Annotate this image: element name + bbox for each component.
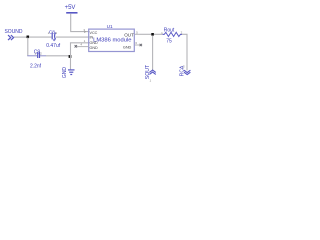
svg-text:U1: U1 [107,24,113,29]
node out junction [151,33,154,36]
wire OUT to junction [140,33,152,35]
wire junction to C8 [29,36,52,38]
svg-text:GND: GND [123,46,132,50]
svg-text:SOUT: SOUT [145,64,151,79]
wire C9 to ground junction [46,55,70,57]
connector SOUND [4,29,22,40]
svg-text:0.47uf: 0.47uf [46,43,61,49]
svg-text:VCC: VCC [90,31,98,35]
ground [62,67,74,79]
svg-text:LM386 module: LM386 module [93,38,131,44]
wire C8 to IN pin [56,36,89,38]
wire SOUND to junction [14,36,27,38]
power +5V [65,5,78,13]
connector SOUT [145,64,156,83]
resistor Rout [161,28,182,45]
connector RCA [179,64,190,76]
wire ground net: GND pin to ground symbol [71,43,89,70]
pin GND2 stub no-connect [77,46,89,48]
node input junction [27,36,30,39]
wire junction down to SOUT [152,36,154,70]
capacitor C9 [27,50,46,70]
wire resistor to RCA drop [182,34,187,70]
svg-text:2: 2 [84,30,86,34]
op-amp module U1 [75,24,142,52]
svg-text:GND: GND [90,46,99,50]
pin GND right stub no-connect [135,44,140,46]
svg-text:75: 75 [166,39,172,45]
wire +5V to VCC pin [71,14,89,32]
svg-text:+5V: +5V [65,5,76,11]
svg-text:2: 2 [40,51,42,55]
svg-text:1: 1 [55,31,57,35]
node ground junction [69,55,72,58]
svg-text:1: 1 [149,79,151,83]
capacitor C8 [46,29,61,49]
wire junction to resistor [154,33,163,35]
wire junction down [27,38,29,56]
svg-text:2.2nf: 2.2nf [30,63,42,69]
svg-text:GND: GND [62,67,68,79]
pin OUT stub [135,33,140,35]
svg-text:SOUND: SOUND [4,29,22,35]
